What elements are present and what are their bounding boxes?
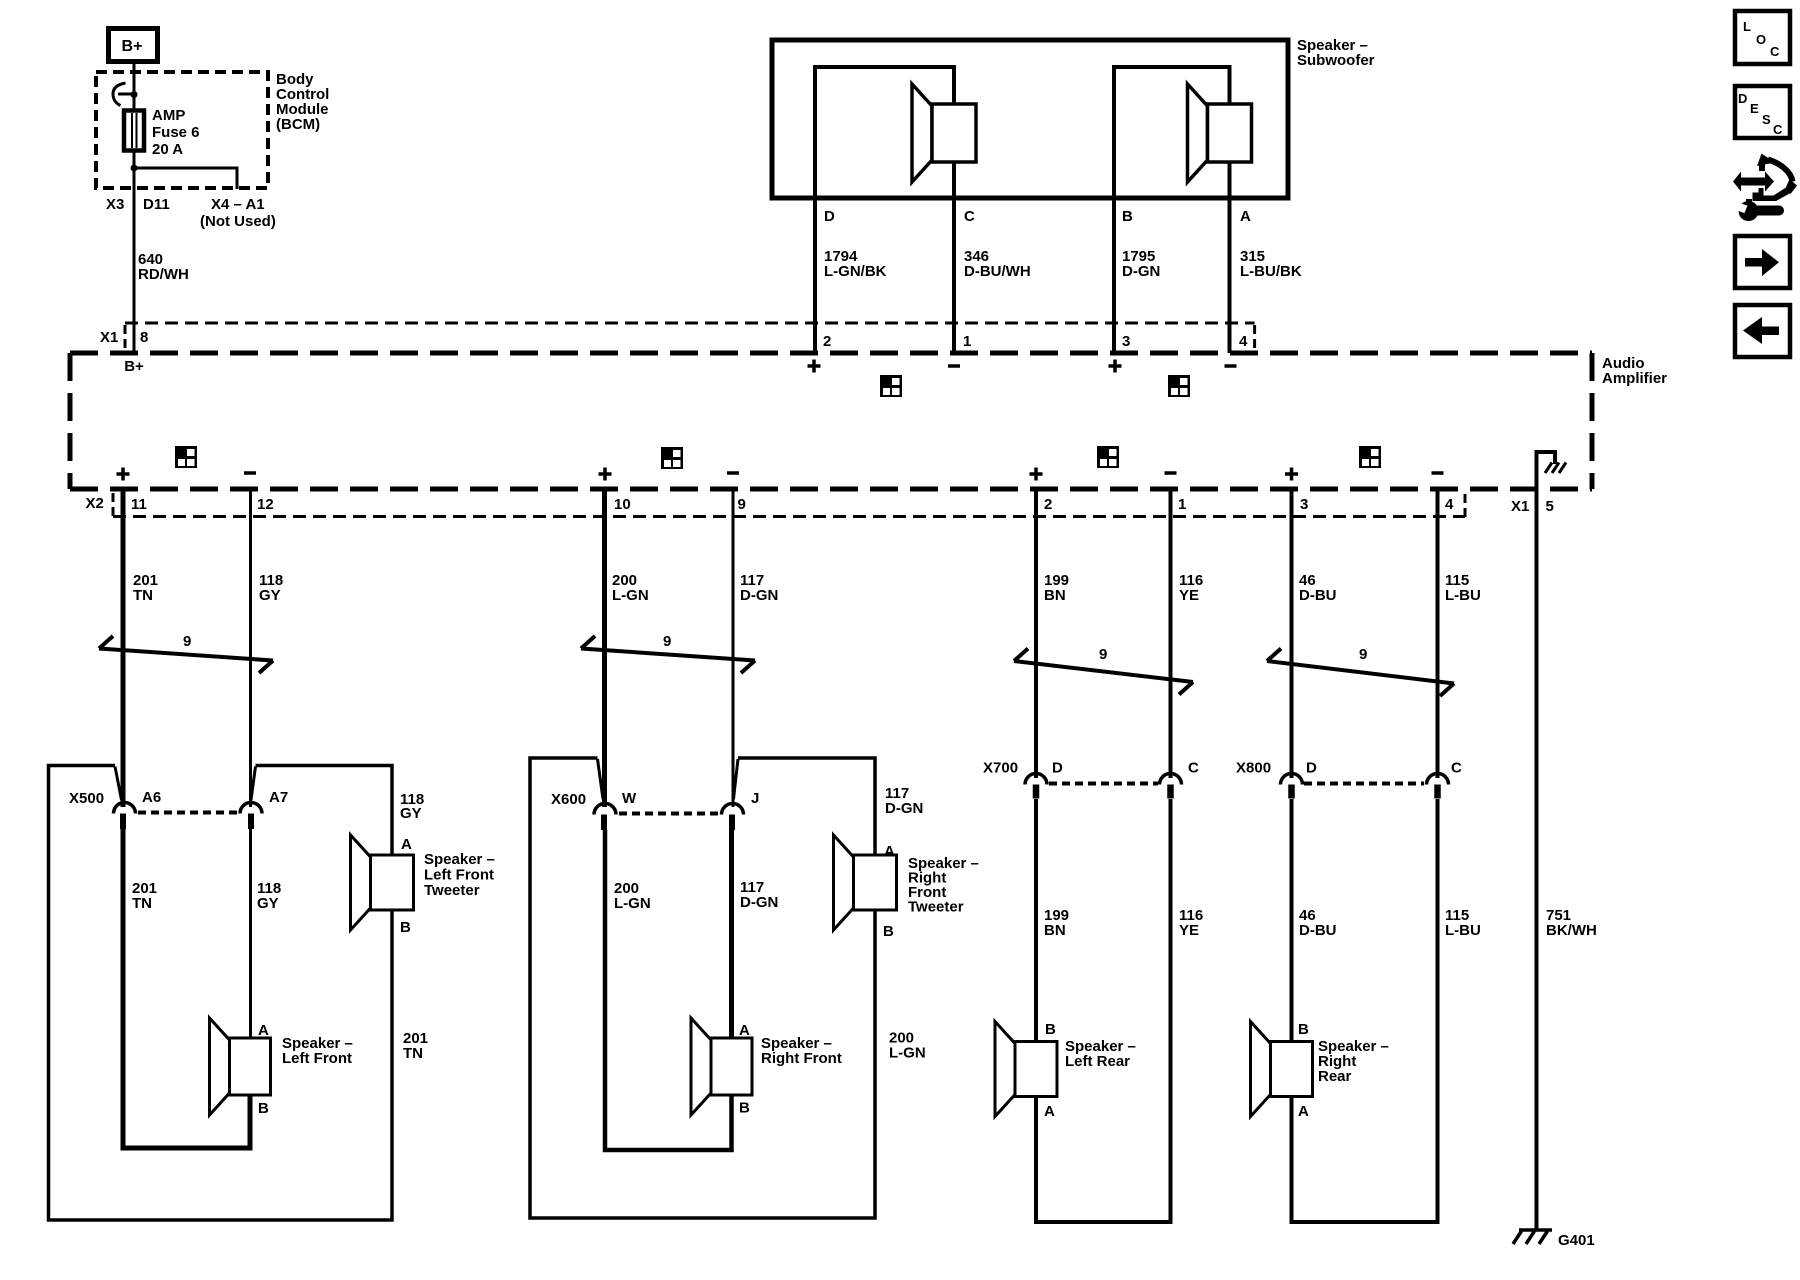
svg-text:X2: X2 [86,495,104,512]
label 118 GY [259,572,283,604]
label 199 BN (lower) [1044,907,1069,939]
svg-text:A: A [1044,1103,1055,1120]
wire 118 GY (pin 12) [249,489,252,807]
svg-text:D-GN: D-GN [740,894,778,911]
wire 117 D-GN (pin 9) [732,489,735,807]
subwoofer left speaker symbol [912,84,976,182]
svg-text:J: J [751,790,759,807]
svg-text:BK/WH: BK/WH [1546,922,1597,939]
connector X1 outline (top) [125,323,1255,352]
svg-text:B+: B+ [124,358,144,375]
svg-text:Tweeter: Tweeter [424,882,480,899]
svg-text:9: 9 [1359,646,1367,663]
X500 box kink at A7 [251,767,256,801]
ground G401 symbol [1513,1230,1552,1244]
connector X2 outline (bottom) [113,493,1465,520]
svg-text:B: B [739,1100,750,1117]
label Speaker - Left Rear [1065,1038,1136,1070]
svg-text:9: 9 [1099,646,1107,663]
svg-text:D-BU: D-BU [1299,587,1337,604]
svg-text:O: O [1756,32,1766,47]
connector X700 D terminal [1025,774,1047,799]
Body Control Module (BCM) box [96,72,268,188]
svg-text:B: B [1298,1021,1309,1038]
svg-text:C: C [1188,760,1199,777]
svg-text:9: 9 [738,496,746,513]
label 46 D-BU [1299,572,1337,604]
svg-text:Speaker –: Speaker – [424,851,495,868]
DESC legend box [1735,86,1790,138]
svg-text:A7: A7 [269,789,288,806]
twisted pair slash (right front), note 9 [581,633,755,673]
svg-text:Left Front: Left Front [282,1050,352,1067]
svg-text:D: D [1738,91,1747,106]
label 115 L-BU (lower) [1445,907,1481,939]
subwoofer right inner box [1114,67,1230,198]
speaker Right Front Tweeter [834,835,897,930]
svg-text:2: 2 [823,333,831,350]
connector X700 C terminal [1160,774,1182,799]
svg-text:D-GN: D-GN [740,587,778,604]
svg-text:X1: X1 [100,329,118,346]
polarity + at sub pin 3 [1109,360,1122,373]
polarity + at sub pin 2 [808,360,821,373]
polarity + at pin 10 [599,468,612,481]
svg-text:W: W [622,790,637,807]
svg-text:(Not Used): (Not Used) [200,213,276,230]
B+ power terminal [109,29,158,62]
svg-text:L-BU: L-BU [1445,587,1481,604]
svg-text:TN: TN [132,895,152,912]
twisted pair slash (left front), note 9 [99,633,273,673]
X600 door box [530,758,875,1218]
battery feed clip symbol [113,83,133,106]
svg-text:A: A [1298,1103,1309,1120]
speaker Left Front Tweeter [351,835,414,930]
polarity - at pin 1 [1165,471,1177,475]
X700 connector dashes [1049,782,1158,786]
svg-text:9: 9 [663,633,671,650]
svg-text:L-GN: L-GN [612,587,649,604]
wire 199 BN (pin 2) [1034,489,1038,778]
label 118 GY (door) [257,880,281,912]
forward arrow box [1735,236,1790,288]
svg-text:C: C [1770,44,1780,59]
svg-text:A: A [258,1022,269,1039]
svg-text:12: 12 [257,496,274,513]
svg-text:S: S [1762,112,1771,127]
svg-text:11: 11 [131,496,147,513]
label Speaker - Left Front [282,1035,353,1067]
label 199 BN [1044,572,1069,604]
svg-text:B: B [1122,208,1133,225]
polarity - at sub pin 1 [948,364,960,368]
subwoofer left inner box [815,67,954,198]
speaker Left Front [210,1018,271,1115]
svg-text:D-GN: D-GN [1122,263,1160,280]
label 116 YE (lower) [1179,907,1203,939]
svg-text:L-GN: L-GN [889,1045,926,1062]
BCM label [276,71,329,133]
svg-text:G401: G401 [1558,1232,1595,1249]
wire loop right rear return [1292,799,1438,1222]
svg-text:C: C [1773,122,1783,137]
wire 201 TN door run [123,829,250,1148]
svg-text:20 A: 20 A [152,141,183,158]
wire 315 L-BU/BK (sub A) [1228,67,1232,353]
svg-text:D-BU: D-BU [1299,922,1337,939]
svg-text:Left Front: Left Front [424,867,494,884]
svg-text:D: D [1052,760,1063,777]
svg-text:BN: BN [1044,922,1066,939]
wire loop left rear return [1036,799,1171,1222]
X600 box kink at W [598,759,604,799]
polarity - at pin 4 [1432,471,1444,475]
wire 115 L-BU (pin 4) [1436,489,1440,778]
label 200 L-GN (right side) [889,1030,926,1062]
svg-text:L-BU: L-BU [1445,922,1481,939]
svg-text:C: C [1451,760,1462,777]
polarity - at pin 12 [244,471,256,475]
svg-text:D-BU/WH: D-BU/WH [964,263,1031,280]
wire 1794 L-GN/BK (sub D) [813,67,817,353]
svg-text:4: 4 [1445,496,1454,513]
wire 640 RD/WH from B+ to amplifier pin 8 [133,64,136,353]
svg-text:D11: D11 [143,196,170,213]
svg-text:8: 8 [140,329,148,346]
label 115 L-BU [1445,572,1481,604]
svg-text:Rear: Rear [1318,1068,1352,1085]
svg-text:B: B [883,923,894,940]
svg-text:X4 – A1: X4 – A1 [211,196,265,213]
X500 box kink at A6 [115,767,122,801]
svg-text:GY: GY [400,805,422,822]
twisted pair symbol (right front) [661,447,683,469]
svg-text:Right Front: Right Front [761,1050,842,1067]
label 116 YE [1179,572,1203,604]
label Speaker - Right Front [761,1035,842,1067]
svg-text:GY: GY [257,895,279,912]
svg-text:(BCM): (BCM) [276,116,320,133]
svg-text:A: A [1240,208,1251,225]
polarity + at pin 11 [117,468,130,481]
speaker Right Front [691,1018,752,1115]
wire 346 D-BU/WH (sub C) [952,67,956,353]
svg-text:X1: X1 [1511,498,1529,515]
fuse value label [152,107,200,158]
label 117 D-GN [740,572,778,604]
svg-text:D: D [1306,760,1317,777]
twisted pair slash (right rear), note 9 [1267,646,1454,696]
Audio Amplifier label [1602,355,1667,387]
svg-text:Fuse 6: Fuse 6 [152,124,200,141]
svg-text:YE: YE [1179,587,1199,604]
label 751 BK/WH [1546,907,1597,939]
wire label 640 RD/WH [138,251,189,283]
subwoofer box bottom edge [772,196,1288,201]
twisted pair symbol (right rear) [1359,446,1381,468]
wire 46 D-BU to speaker [1290,799,1294,1042]
Speaker - Subwoofer label [1297,37,1375,69]
svg-text:TN: TN [133,587,153,604]
svg-text:1: 1 [963,333,971,350]
label Speaker - Right Front Tweeter [908,855,979,916]
twisted pair symbol (left front) [175,446,197,468]
svg-text:D: D [824,208,835,225]
polarity - at sub pin 4 [1225,364,1237,368]
svg-text:Amplifier: Amplifier [1602,370,1667,387]
svg-text:BN: BN [1044,587,1066,604]
label 117 D-GN (tweeter branch) [885,785,923,817]
svg-text:AMP: AMP [152,107,185,124]
wire 1795 D-GN (sub B) [1112,67,1116,353]
svg-text:5: 5 [1546,498,1554,515]
svg-text:L-GN: L-GN [614,895,651,912]
connector X600 W terminal [594,804,616,831]
connector X600 J terminal [722,804,744,831]
label 200 L-GN [612,572,649,604]
LOC legend box [1735,11,1790,64]
svg-text:L: L [1743,19,1751,34]
service tools icon [1733,154,1797,222]
label 201 TN (right side) [403,1030,428,1062]
label 201 TN (door) [132,880,157,912]
wire 118 GY door run [249,829,252,1038]
twisted pair symbol (left rear) [1097,446,1119,468]
wire 200 L-GN (pin 10) [602,489,607,807]
svg-text:GY: GY [259,587,281,604]
label Speaker - Left Front Tweeter [424,851,495,899]
wire label 346 D-BU/WH [964,248,1031,280]
svg-text:D-GN: D-GN [885,800,923,817]
twisted pair symbol (sub front) [880,375,902,397]
svg-text:A6: A6 [142,789,161,806]
svg-text:B: B [1045,1021,1056,1038]
wire 200 L-GN door run [605,830,732,1150]
label 46 D-BU (lower) [1299,907,1337,939]
svg-text:X500: X500 [69,790,104,807]
connector X500 A7 terminal [240,803,262,830]
svg-text:C: C [964,208,975,225]
svg-text:B: B [258,1100,269,1117]
svg-text:Tweeter: Tweeter [908,899,964,916]
svg-text:Left Rear: Left Rear [1065,1053,1130,1070]
connector X800 C terminal [1427,774,1449,799]
svg-text:L-GN/BK: L-GN/BK [824,263,887,280]
svg-text:X3: X3 [106,196,124,213]
svg-text:Subwoofer: Subwoofer [1297,52,1375,69]
svg-text:X800: X800 [1236,760,1271,777]
subwoofer right speaker symbol [1188,84,1252,182]
wire 201 TN (pin 11) [121,489,126,807]
connector X500 A6 terminal [114,803,136,830]
svg-text:B+: B+ [122,38,143,55]
wire label 315 L-BU/BK [1240,248,1302,280]
label 117 D-GN (door) [740,879,778,911]
Audio Amplifier dashed box [70,353,1592,489]
svg-text:YE: YE [1179,922,1199,939]
speaker Right Rear [1251,1022,1313,1117]
polarity + at pin 2 [1030,468,1043,481]
fuse AMP Fuse 6 20 A [124,111,144,151]
polarity + at pin 3 [1285,468,1298,481]
polarity - at pin 9 [727,471,739,475]
twisted pair slash (left rear), note 9 [1014,646,1193,695]
svg-text:A: A [884,843,895,860]
speaker Left Rear [995,1022,1057,1117]
svg-text:A: A [739,1022,750,1039]
internal ground of amplifier [1537,452,1567,489]
svg-text:TN: TN [403,1045,423,1062]
pin label X4 - A1 (Not Used) [200,196,276,230]
svg-text:B: B [400,919,411,936]
wire 751 BK/WH (pin 5) to ground [1535,489,1539,1229]
twisted pair symbol (sub rear) [1168,375,1190,397]
label 200 L-GN (door) [614,880,651,912]
svg-text:X600: X600 [551,791,586,808]
back arrow box [1735,305,1790,357]
connector X800 D terminal [1281,774,1303,799]
label 118 GY (tweeter branch) [400,791,424,822]
svg-text:E: E [1750,101,1759,116]
wire label 1795 D-GN [1122,248,1160,280]
junction node above fuse [131,91,138,98]
svg-text:1: 1 [1178,496,1186,513]
svg-text:RD/WH: RD/WH [138,266,189,283]
svg-text:2: 2 [1044,496,1052,513]
wire 116 YE (pin 1) [1169,489,1173,778]
X800 connector dashes [1304,782,1424,786]
junction node below fuse [131,165,138,172]
wire stub to X4-A1 (not used) [134,168,237,189]
X500 connector dashes [138,811,239,815]
X600 connector dashes [619,812,720,816]
svg-text:A: A [401,836,412,853]
label Speaker - Right Rear [1318,1038,1389,1085]
X500 door box [49,766,393,1221]
svg-text:3: 3 [1122,333,1130,350]
X600 box kink at J [734,759,739,799]
Speaker - Subwoofer outer box [772,40,1288,198]
svg-text:9: 9 [183,633,191,650]
wire 46 D-BU (pin 3) [1290,489,1294,778]
svg-text:10: 10 [614,496,631,513]
wire label 1794 L-GN/BK [824,248,887,280]
svg-text:X700: X700 [983,760,1018,777]
label 201 TN [133,572,158,604]
svg-text:4: 4 [1239,333,1248,350]
wire 117 D-GN door run [729,830,734,1038]
wire 199 BN to speaker [1034,799,1038,1042]
svg-text:L-BU/BK: L-BU/BK [1240,263,1302,280]
svg-text:3: 3 [1300,496,1308,513]
